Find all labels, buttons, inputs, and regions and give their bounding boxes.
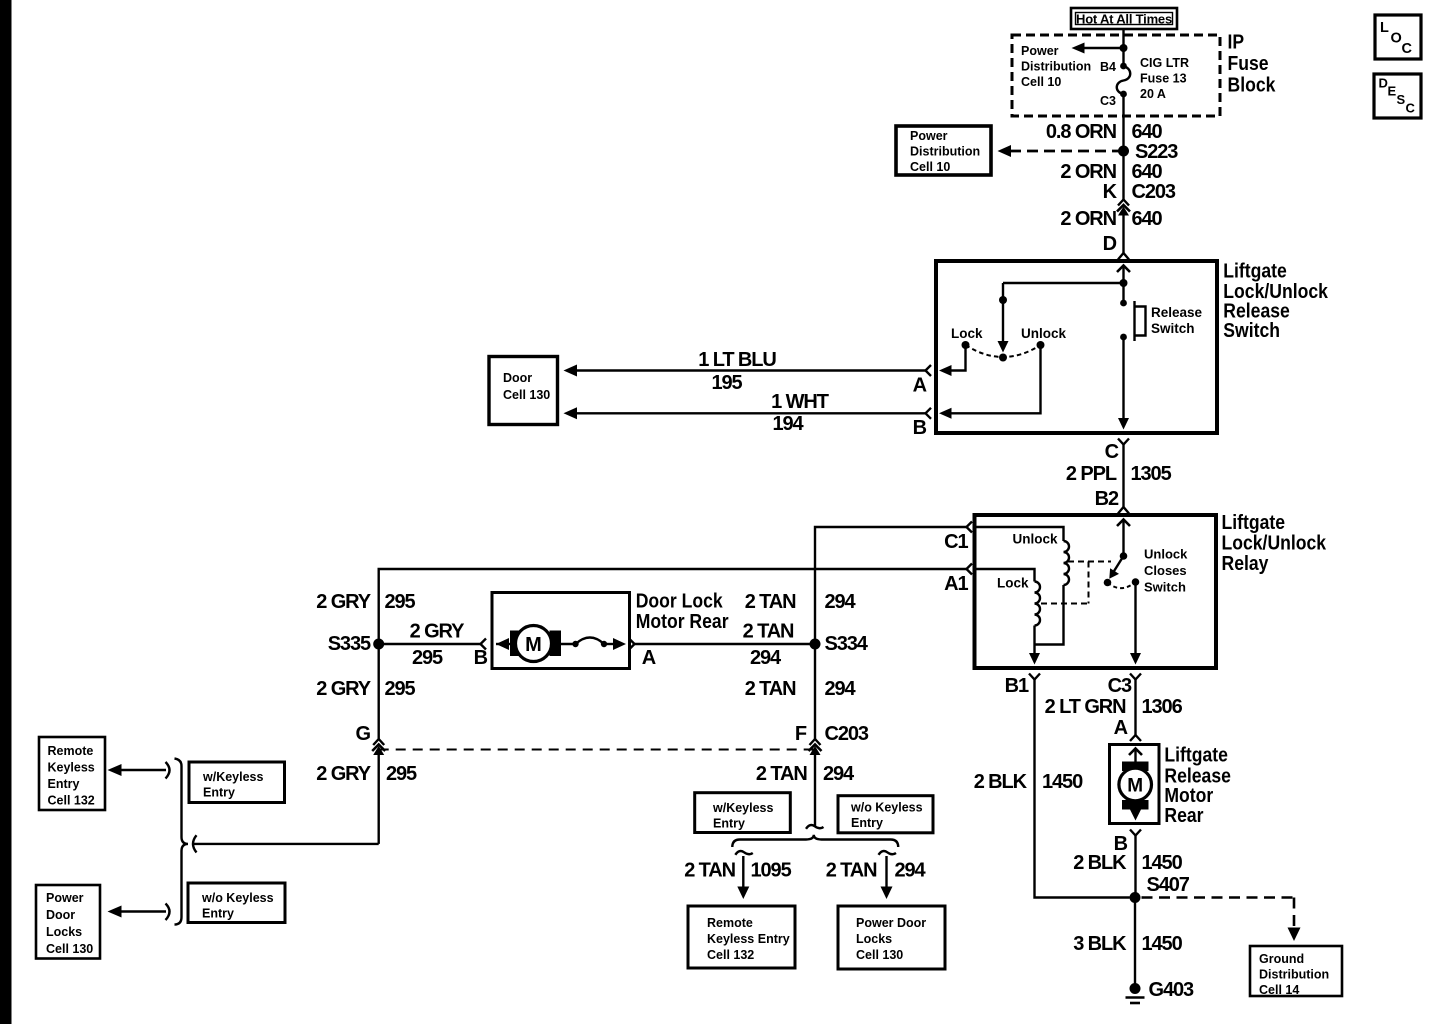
release switch label: [1151, 305, 1203, 336]
motor internal left arrow: [496, 638, 511, 650]
svg-text:2 TAN: 2 TAN: [756, 763, 807, 785]
svg-text:Power Door: Power Door: [856, 916, 926, 930]
LOC box: [1375, 15, 1421, 59]
wiper arrow down: [998, 300, 1009, 353]
dashed wire S407 to ground distribution: [1142, 898, 1301, 942]
svg-text:E: E: [1388, 84, 1397, 99]
liftgate lock/unlock release switch box: [936, 261, 1217, 433]
svg-text:M: M: [525, 634, 542, 656]
svg-text:2 TAN: 2 TAN: [826, 860, 877, 882]
splice S334: [810, 639, 821, 650]
release switch contact lower: [1120, 334, 1127, 341]
svg-text:S: S: [1397, 92, 1406, 107]
wire unlock coil to B1: [1035, 585, 1064, 645]
relay contact right: [1132, 578, 1140, 586]
release switch side label: [1223, 259, 1328, 341]
splice S335: [373, 639, 384, 650]
svg-text:2 TAN: 2 TAN: [684, 860, 735, 882]
DESC box: [1374, 74, 1421, 118]
ground distribution cell 14 box: [1250, 946, 1342, 997]
svg-text:Closes: Closes: [1144, 563, 1187, 578]
svg-text:Hot At All Times: Hot At All Times: [1076, 12, 1172, 27]
pin B2 fork: [1095, 488, 1129, 514]
svg-text:w/o Keyless: w/o Keyless: [201, 891, 274, 905]
fuse value label: [1140, 56, 1189, 101]
liftgate lock/unlock relay box: [975, 515, 1217, 668]
svg-text:Locks: Locks: [46, 925, 82, 939]
svg-text:Entry: Entry: [851, 816, 883, 830]
hot at all times label: [1071, 8, 1177, 29]
unlock wire to pin B: [939, 345, 1041, 419]
pin A1 fork: [944, 564, 972, 596]
svg-text:Remote: Remote: [48, 744, 94, 758]
pin C1 fork: [944, 522, 972, 554]
dashed C203 connector line: [379, 749, 815, 751]
svg-text:2 TAN: 2 TAN: [743, 621, 794, 643]
svg-text:Power: Power: [46, 891, 84, 905]
power door locks cell 130 box mid: [838, 906, 945, 969]
dashed throw arc relay: [1108, 582, 1136, 588]
svg-text:1095: 1095: [751, 860, 792, 882]
unlock coil: [1064, 541, 1070, 585]
svg-text:B: B: [913, 417, 927, 439]
svg-text:295: 295: [385, 591, 416, 613]
release switch bar and bracket: [1135, 301, 1146, 341]
svg-text:C3: C3: [1108, 675, 1132, 697]
svg-text:Liftgate: Liftgate: [1222, 511, 1286, 533]
fuse CIG LTR Fuse 13 20A: [1117, 63, 1131, 98]
svg-text:1450: 1450: [1142, 933, 1183, 955]
splice S223: [1118, 146, 1129, 157]
arrow to remote keyless entry: [108, 762, 170, 779]
junction node in fuse block: [1120, 44, 1128, 52]
remote keyless entry cell 132 box mid: [688, 906, 795, 968]
svg-text:B2: B2: [1095, 488, 1119, 510]
internal wire B2 to pivot: [1122, 520, 1124, 556]
svg-text:Cell 14: Cell 14: [1259, 983, 1299, 997]
svg-text:C203: C203: [1132, 181, 1176, 203]
svg-text:S335: S335: [328, 633, 371, 655]
svg-text:Distribution: Distribution: [910, 145, 980, 159]
svg-text:Switch: Switch: [1223, 319, 1280, 341]
wire S334 to C1: [815, 527, 967, 644]
svg-text:CIG LTR: CIG LTR: [1140, 56, 1189, 70]
motor pin B fork: [474, 639, 488, 670]
door lock motor rear box: [492, 593, 630, 669]
option brace mid: [732, 835, 898, 847]
svg-text:Entry: Entry: [202, 907, 234, 921]
svg-text:Cell 130: Cell 130: [856, 948, 903, 962]
svg-text:C1: C1: [944, 531, 968, 553]
power distribution text inside fuse block: [1021, 44, 1091, 89]
pin B2 internal chevron: [1117, 520, 1130, 527]
svg-text:Unlock: Unlock: [1013, 532, 1059, 547]
dashed throw arc: [966, 345, 1041, 357]
svg-text:294: 294: [825, 678, 857, 700]
pin B1 fork below relay: [1005, 674, 1040, 698]
svg-text:2 ORN: 2 ORN: [1060, 161, 1116, 183]
power door locks cell 130 box left: [36, 885, 100, 959]
svg-text:Power: Power: [1021, 44, 1059, 58]
svg-text:O: O: [1391, 31, 1402, 47]
svg-text:Door: Door: [46, 908, 75, 922]
svg-text:Cell 130: Cell 130: [503, 388, 550, 402]
motor pin B fork: [1114, 830, 1141, 856]
svg-text:G403: G403: [1149, 979, 1195, 1001]
wire C to relay B2: [1122, 445, 1124, 508]
wire motor B to S407: [1134, 836, 1136, 898]
remote keyless entry cell 132 box left: [39, 737, 105, 810]
internal wire to motor: [1134, 749, 1136, 762]
svg-text:20 A: 20 A: [1140, 87, 1166, 101]
wire C203 to D: [1122, 214, 1124, 253]
svg-text:w/o Keyless: w/o Keyless: [850, 801, 923, 815]
svg-text:A1: A1: [944, 573, 968, 595]
splice S407: [1130, 892, 1141, 903]
svg-text:Keyless: Keyless: [48, 761, 95, 775]
motor internal bottom arrow: [1130, 805, 1141, 821]
unlock closes switch label: [1144, 547, 1188, 595]
svg-text:Distribution: Distribution: [1259, 968, 1329, 982]
svg-text:B: B: [474, 647, 488, 669]
svg-text:2 GRY: 2 GRY: [410, 621, 466, 643]
svg-text:C203: C203: [825, 723, 869, 745]
motor A internal chevron: [1129, 749, 1142, 756]
svg-text:C: C: [1402, 41, 1413, 57]
wiper contact node: [999, 354, 1007, 362]
IP fuse block side label: [1228, 30, 1276, 95]
pin C3 fork below relay: [1108, 674, 1141, 698]
right branch wire with arrow: [881, 856, 893, 899]
svg-text:w/Keyless: w/Keyless: [202, 770, 264, 784]
motor pin A fork: [1114, 717, 1141, 741]
internal wire D down: [1122, 266, 1124, 283]
wire fuse to S223: [1122, 94, 1124, 200]
wire S407 to G403: [1134, 898, 1136, 985]
lock contact: [962, 341, 970, 349]
svg-text:Power: Power: [910, 129, 948, 143]
svg-text:Cell 10: Cell 10: [910, 160, 950, 174]
wire A to door cell 130: [564, 365, 926, 377]
wire S334 down to F: [814, 644, 816, 739]
svg-text:294: 294: [825, 591, 857, 613]
svg-text:B4: B4: [1100, 60, 1116, 74]
svg-text:2 TAN: 2 TAN: [745, 678, 796, 700]
svg-text:1306: 1306: [1142, 696, 1183, 718]
liftgate release motor side label: [1164, 743, 1231, 826]
left branch wire with arrow: [737, 856, 749, 899]
pin D fork: [1103, 233, 1129, 260]
w/keyless entry box mid: [695, 793, 791, 833]
liftgate release motor M symbol: [1119, 762, 1152, 810]
lock wire to pin A: [939, 345, 966, 376]
svg-text:640: 640: [1132, 208, 1163, 230]
motor internal contact: [552, 638, 627, 651]
wire B1 down to S407: [1035, 680, 1130, 898]
svg-text:Cell 132: Cell 132: [48, 794, 95, 808]
relay switch blade arrow: [1109, 556, 1123, 579]
svg-text:2 LT GRN: 2 LT GRN: [1045, 696, 1126, 718]
svg-text:Fuse: Fuse: [1228, 52, 1269, 74]
svg-text:M: M: [1127, 776, 1143, 797]
release switch contact upper: [1120, 300, 1127, 307]
svg-text:2 ORN: 2 ORN: [1060, 208, 1116, 230]
motor M symbol: [510, 626, 561, 662]
wire brace to G line: [194, 843, 379, 845]
w/o keyless entry box mid: [838, 796, 933, 833]
arrow to power door locks: [108, 904, 170, 921]
scan border bar: [0, 0, 12, 1024]
svg-text:L: L: [1380, 20, 1389, 36]
left branch squiggle: [735, 851, 753, 855]
svg-text:Liftgate: Liftgate: [1223, 259, 1287, 281]
svg-text:Lock: Lock: [997, 576, 1029, 591]
wire F down: [814, 754, 816, 827]
svg-text:Cell 10: Cell 10: [1021, 75, 1061, 89]
svg-text:A: A: [1114, 717, 1128, 739]
svg-text:0.8 ORN: 0.8 ORN: [1046, 121, 1117, 143]
svg-text:Cell 132: Cell 132: [707, 948, 754, 962]
svg-text:Cell 130: Cell 130: [46, 942, 93, 956]
svg-text:295: 295: [386, 763, 417, 785]
svg-text:2 PPL: 2 PPL: [1066, 463, 1117, 485]
svg-text:Liftgate: Liftgate: [1164, 743, 1228, 765]
svg-text:Block: Block: [1228, 73, 1276, 95]
svg-text:Entry: Entry: [203, 786, 235, 800]
svg-text:Entry: Entry: [713, 817, 745, 831]
svg-text:C: C: [1406, 101, 1416, 116]
svg-text:IP: IP: [1228, 30, 1245, 52]
wire S335 to A1: [379, 569, 967, 644]
svg-text:Distribution: Distribution: [1021, 60, 1091, 74]
wire junction to release switch contact: [1122, 283, 1124, 303]
svg-text:Fuse 13: Fuse 13: [1140, 72, 1187, 86]
svg-text:294: 294: [750, 647, 782, 669]
svg-text:Door Lock: Door Lock: [636, 589, 723, 611]
pin C fork below box: [1105, 439, 1129, 464]
svg-text:w/Keyless: w/Keyless: [712, 801, 774, 815]
dashed linkage coil to switch: [1041, 562, 1111, 604]
svg-text:Switch: Switch: [1144, 580, 1186, 595]
internal wire C3 with arrow: [1130, 582, 1141, 665]
dashed wire S223 to power distribution: [998, 145, 1120, 157]
svg-text:S223: S223: [1135, 141, 1178, 163]
svg-text:Switch: Switch: [1151, 321, 1195, 336]
connector C203 pin G: [356, 723, 386, 755]
svg-text:195: 195: [711, 372, 742, 394]
svg-text:S407: S407: [1147, 874, 1190, 896]
svg-text:294: 294: [823, 763, 855, 785]
svg-text:Ground: Ground: [1259, 952, 1304, 966]
arrow to power distribution: [1072, 43, 1124, 54]
connector C203 pin K: [1103, 181, 1176, 216]
pin D internal chevron: [1117, 266, 1130, 273]
svg-text:Locks: Locks: [856, 932, 892, 946]
svg-text:G: G: [356, 723, 371, 745]
lock coil: [1035, 582, 1041, 626]
svg-text:Unlock: Unlock: [1144, 547, 1188, 562]
svg-text:640: 640: [1132, 121, 1163, 143]
svg-text:1305: 1305: [1131, 463, 1172, 485]
svg-text:1 WHT: 1 WHT: [771, 391, 829, 413]
svg-text:K: K: [1103, 181, 1118, 203]
svg-text:294: 294: [895, 860, 927, 882]
internal wire to pin C with arrow: [1118, 337, 1129, 430]
liftgate release motor box: [1110, 745, 1160, 824]
svg-text:D: D: [1379, 76, 1388, 91]
svg-text:Entry: Entry: [48, 777, 80, 791]
svg-text:Door: Door: [503, 371, 532, 385]
svg-text:194: 194: [772, 413, 804, 435]
svg-text:Rear: Rear: [1164, 804, 1204, 826]
relay side label: [1222, 511, 1327, 574]
internal wire B1 with arrow: [1029, 626, 1040, 665]
F wire end squiggle: [806, 825, 824, 829]
right branch squiggle: [879, 851, 897, 855]
svg-text:295: 295: [412, 647, 443, 669]
pin A fork: [913, 365, 931, 397]
option brace left: [175, 759, 189, 925]
w/keyless entry box left: [189, 762, 285, 803]
svg-text:1 LT BLU: 1 LT BLU: [698, 349, 776, 371]
svg-text:2 BLK: 2 BLK: [974, 771, 1028, 793]
svg-text:A: A: [642, 647, 656, 669]
power distribution cell 10 box: [896, 126, 991, 175]
svg-text:F: F: [795, 723, 807, 745]
wire B to door cell 130: [564, 407, 926, 419]
svg-text:1450: 1450: [1142, 852, 1183, 874]
svg-text:2 BLK: 2 BLK: [1073, 852, 1127, 874]
door cell 130 box: [489, 357, 558, 425]
svg-text:2 GRY: 2 GRY: [316, 678, 372, 700]
svg-text:Lock/Unlock: Lock/Unlock: [1222, 531, 1327, 553]
w/o keyless entry box left: [188, 883, 285, 923]
svg-text:Lock: Lock: [951, 326, 983, 341]
svg-text:Unlock: Unlock: [1021, 326, 1067, 341]
wire motor A to S334: [635, 643, 816, 645]
svg-text:Relay: Relay: [1222, 552, 1269, 574]
motor pin A fork: [629, 639, 656, 670]
wire G down: [378, 754, 380, 844]
pin B fork: [913, 408, 931, 439]
wire from hot to fuse block: [1122, 29, 1124, 48]
svg-text:2 GRY: 2 GRY: [316, 591, 372, 613]
svg-text:295: 295: [385, 678, 416, 700]
svg-text:2 TAN: 2 TAN: [745, 591, 796, 613]
svg-text:C: C: [1105, 441, 1119, 463]
wire C3 down to motor A: [1134, 680, 1136, 736]
relay contact left: [1104, 579, 1112, 587]
svg-text:Motor Rear: Motor Rear: [636, 610, 729, 632]
svg-text:Keyless Entry: Keyless Entry: [707, 932, 790, 946]
svg-text:Release: Release: [1151, 305, 1203, 320]
wire junction to fuse: [1122, 48, 1124, 66]
svg-text:D: D: [1103, 233, 1117, 255]
connector C203 pin F: [795, 723, 869, 755]
relay switch pivot: [1120, 552, 1128, 560]
svg-text:1450: 1450: [1042, 771, 1083, 793]
svg-text:B1: B1: [1005, 675, 1029, 697]
internal wire C1 to unlock coil: [977, 527, 1064, 541]
internal wire A1 to lock coil: [977, 569, 1035, 582]
svg-text:3 BLK: 3 BLK: [1073, 933, 1127, 955]
svg-text:S334: S334: [825, 633, 869, 655]
internal wire to lock/unlock arm: [1003, 282, 1124, 284]
svg-text:2 GRY: 2 GRY: [316, 763, 372, 785]
wire S335 to motor pin B: [379, 643, 481, 645]
brace cusp hook: [193, 835, 197, 852]
ground G403: [1126, 979, 1195, 1003]
svg-text:Remote: Remote: [707, 916, 753, 930]
door lock motor side label: [636, 589, 729, 632]
svg-text:A: A: [913, 375, 927, 397]
IP fuse block dashed box: [1012, 35, 1220, 116]
internal node: [1120, 279, 1128, 287]
svg-text:C3: C3: [1100, 94, 1116, 108]
svg-text:640: 640: [1132, 161, 1163, 183]
wire S335 down to G: [378, 644, 380, 739]
unlock contact: [1037, 341, 1045, 349]
